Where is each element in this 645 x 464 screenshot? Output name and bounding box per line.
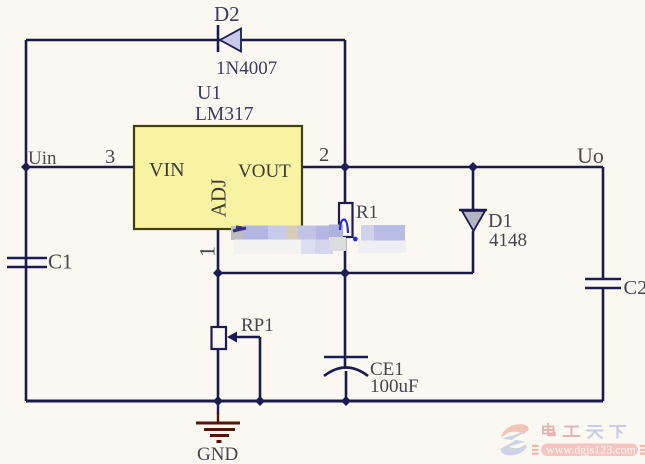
svg-text:4148: 4148 (489, 230, 527, 251)
svg-text:100uF: 100uF (370, 376, 419, 397)
svg-text:C2: C2 (624, 277, 645, 299)
svg-text:U1: U1 (197, 82, 221, 104)
svg-text:3: 3 (105, 146, 115, 168)
svg-text:VOUT: VOUT (238, 161, 291, 182)
svg-text:C1: C1 (48, 250, 73, 274)
svg-text:1: 1 (195, 246, 220, 257)
svg-text:D2: D2 (214, 2, 240, 26)
svg-text:ADJ: ADJ (207, 179, 231, 218)
svg-text:Uo: Uo (577, 143, 604, 168)
svg-text:www.dgjs123.com: www.dgjs123.com (546, 443, 637, 457)
svg-text:VIN: VIN (149, 159, 185, 181)
svg-text:1N4007: 1N4007 (216, 58, 277, 79)
svg-text:GND: GND (197, 444, 238, 464)
svg-text:2: 2 (319, 144, 329, 166)
svg-text:Uin: Uin (28, 148, 57, 169)
svg-text:R1: R1 (356, 202, 378, 223)
svg-text:D1: D1 (488, 210, 512, 232)
svg-text:LM317: LM317 (195, 104, 254, 125)
svg-text:RP1: RP1 (241, 315, 274, 336)
